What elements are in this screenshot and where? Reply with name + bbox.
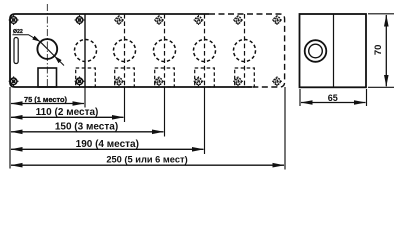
svg-text:75 (1 место): 75 (1 место) — [24, 95, 68, 104]
svg-text:110 (2 места): 110 (2 места) — [36, 107, 99, 118]
svg-text:190 (4 места): 190 (4 места) — [76, 139, 139, 150]
svg-text:Ø22: Ø22 — [13, 29, 23, 35]
svg-text:70: 70 — [373, 45, 384, 56]
svg-text:65: 65 — [328, 93, 338, 103]
svg-text:150 (3 места): 150 (3 места) — [55, 122, 118, 133]
svg-text:250 (5 или 6 мест): 250 (5 или 6 мест) — [106, 155, 187, 165]
